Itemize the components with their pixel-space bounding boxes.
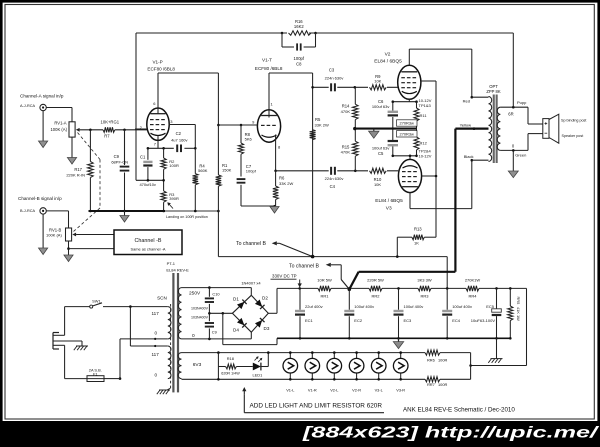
svg-text:C1: C1 — [140, 155, 146, 160]
svg-text:EL84 / 6BQ5: EL84 / 6BQ5 — [375, 198, 403, 204]
svg-text:22uf 400v: 22uf 400v — [305, 304, 323, 309]
svg-text:103N400V: 103N400V — [191, 307, 209, 311]
svg-text:224n 630v: 224n 630v — [325, 76, 344, 81]
svg-text:100uf 63v: 100uf 63v — [372, 146, 390, 151]
svg-text:4u7 160v: 4u7 160v — [171, 137, 187, 142]
svg-text:33K 2W: 33K 2W — [315, 122, 329, 127]
svg-text:1N4007 x4: 1N4007 x4 — [241, 280, 261, 285]
svg-text:C5: C5 — [378, 151, 384, 156]
svg-text:5K6: 5K6 — [245, 137, 253, 142]
svg-text:330V DC TP: 330V DC TP — [272, 274, 297, 279]
svg-text:D1: D1 — [233, 297, 239, 302]
svg-text:F1: F1 — [93, 371, 98, 376]
svg-text:100R: 100R — [438, 358, 447, 363]
svg-text:V3: V3 — [386, 205, 392, 211]
svg-text:V1-L: V1-L — [286, 387, 295, 392]
svg-text:RR5: RR5 — [516, 297, 521, 305]
svg-text:R12: R12 — [420, 141, 428, 146]
svg-text:R7: R7 — [104, 133, 110, 138]
svg-text:390R: 390R — [169, 196, 179, 201]
svg-text:R6: R6 — [279, 176, 285, 181]
svg-text:100K (A): 100K (A) — [50, 127, 67, 132]
svg-text:0: 0 — [192, 333, 195, 339]
svg-text:R17: R17 — [74, 167, 82, 172]
svg-text:A-J-RCA: A-J-RCA — [20, 104, 35, 108]
svg-text:100uf 400v: 100uf 400v — [452, 304, 472, 309]
svg-text:100pf: 100pf — [246, 168, 257, 173]
svg-text:V2: V2 — [385, 52, 391, 58]
svg-text:EC3: EC3 — [404, 318, 413, 323]
svg-text:R15: R15 — [342, 144, 350, 149]
svg-text:470uf10v: 470uf10v — [139, 182, 155, 187]
svg-text:EL84 / 6BQ5: EL84 / 6BQ5 — [374, 58, 402, 64]
svg-text:Red: Red — [463, 98, 470, 103]
svg-text:Channel-A signal in/p: Channel-A signal in/p — [20, 94, 64, 99]
svg-text:150K: 150K — [222, 168, 232, 173]
svg-text:10K: 10K — [374, 79, 381, 84]
svg-text:6R: 6R — [508, 111, 513, 116]
svg-text:103N400V: 103N400V — [191, 315, 209, 319]
svg-text:100uf 400v: 100uf 400v — [404, 304, 424, 309]
svg-text:V2-R: V2-R — [352, 387, 361, 392]
svg-text:D3: D3 — [264, 326, 270, 331]
svg-text:Black: Black — [464, 154, 474, 159]
svg-text:C8: C8 — [296, 61, 302, 66]
svg-text:Speaker post: Speaker post — [562, 134, 584, 138]
svg-text:EC5: EC5 — [486, 304, 495, 309]
svg-text:Green: Green — [515, 152, 526, 157]
svg-text:SCN: SCN — [157, 296, 167, 301]
svg-text:Channel -B: Channel -B — [135, 238, 162, 244]
svg-text:EC4: EC4 — [452, 318, 461, 323]
svg-text:100R: 100R — [169, 163, 179, 168]
svg-text:1K: 1K — [414, 240, 419, 245]
svg-text:270K1W: 270K1W — [465, 277, 481, 282]
svg-text:D2: D2 — [262, 295, 268, 300]
svg-text:10-12V: 10-12V — [419, 153, 432, 158]
svg-text:RV1-A: RV1-A — [54, 120, 66, 125]
svg-text:C10: C10 — [212, 292, 220, 297]
svg-text:Same as channel -A: Same as channel -A — [130, 246, 165, 251]
svg-text:250V: 250V — [189, 290, 201, 296]
svg-text:RR2: RR2 — [371, 293, 380, 298]
svg-text:560K: 560K — [198, 168, 208, 173]
svg-text:To channel B: To channel B — [289, 264, 320, 270]
svg-text:RR4: RR4 — [468, 293, 477, 298]
svg-text:V3-R: V3-R — [396, 387, 405, 392]
svg-text:0: 0 — [154, 372, 157, 377]
svg-text:RR3: RR3 — [420, 293, 429, 298]
svg-text:Yellow: Yellow — [460, 123, 472, 128]
svg-text:100R: 100R — [438, 382, 447, 387]
svg-text:ZPP 8K: ZPP 8K — [486, 89, 501, 94]
svg-text:470K: 470K — [341, 150, 351, 155]
svg-text:470K: 470K — [341, 109, 351, 114]
svg-text:Landing on 100R position: Landing on 100R position — [166, 215, 208, 219]
svg-text:117: 117 — [151, 311, 159, 316]
svg-text:100uf 400v: 100uf 400v — [354, 304, 374, 309]
svg-text:117: 117 — [151, 352, 159, 357]
svg-text:ANK EL84 REV-E Schematic / Dec: ANK EL84 REV-E Schematic / Dec-2010 — [403, 406, 515, 413]
svg-text:EC1: EC1 — [305, 318, 314, 323]
svg-text:33K 2W: 33K 2W — [279, 181, 293, 186]
svg-text:41K 1W: 41K 1W — [516, 307, 521, 321]
svg-text:620R 1/4W: 620R 1/4W — [221, 371, 240, 375]
svg-text:LED1: LED1 — [253, 372, 263, 377]
svg-text:0: 0 — [154, 331, 157, 336]
svg-text:3K3 3W: 3K3 3W — [417, 277, 431, 282]
svg-text:C2: C2 — [176, 131, 182, 136]
svg-text:Pupp: Pupp — [517, 100, 527, 105]
svg-text:V3-L: V3-L — [375, 387, 384, 392]
svg-text:RR7: RR7 — [427, 382, 435, 387]
svg-text:100pf: 100pf — [294, 56, 305, 61]
svg-text:V1-P: V1-P — [152, 59, 162, 64]
svg-text:D4: D4 — [233, 328, 239, 333]
svg-text:R11: R11 — [420, 113, 428, 118]
svg-text:R18: R18 — [227, 356, 234, 361]
svg-text:10K+RG1: 10K+RG1 — [101, 120, 120, 125]
svg-text:16K2: 16K2 — [294, 24, 304, 29]
svg-text:EL84 REV-E: EL84 REV-E — [166, 268, 189, 273]
svg-text:RR6: RR6 — [427, 358, 435, 363]
svg-text:10R 5W: 10R 5W — [317, 277, 332, 282]
svg-text:224n 630v: 224n 630v — [325, 176, 344, 181]
svg-text:C9: C9 — [212, 330, 217, 335]
svg-text:Sp binding post: Sp binding post — [561, 118, 586, 122]
svg-text:ADD LED LIGHT AND LIMIT RESIST: ADD LED LIGHT AND LIMIT RESISTOR 620R — [250, 402, 383, 409]
svg-text:SW1: SW1 — [92, 299, 100, 304]
svg-text:100uf 63v: 100uf 63v — [372, 104, 390, 109]
svg-text:V1-R: V1-R — [308, 387, 317, 392]
svg-text:270R3w: 270R3w — [400, 121, 414, 126]
svg-text:V1-T: V1-T — [262, 58, 272, 63]
svg-text:ECF80 /6BL8: ECF80 /6BL8 — [255, 66, 283, 71]
svg-text:C4: C4 — [330, 184, 336, 189]
svg-text:Channel-B signal in/p: Channel-B signal in/p — [18, 196, 62, 201]
svg-text:6V3: 6V3 — [193, 362, 202, 368]
svg-text:V2-L: V2-L — [330, 387, 339, 392]
svg-text:220K R-IN: 220K R-IN — [66, 172, 85, 177]
svg-text:R14: R14 — [342, 103, 350, 108]
svg-text:C9: C9 — [114, 154, 120, 159]
svg-text:RR1: RR1 — [320, 293, 329, 298]
svg-text:R13: R13 — [414, 227, 422, 232]
svg-text:PT-1: PT-1 — [167, 261, 176, 266]
svg-text:TP1&3: TP1&3 — [419, 103, 432, 108]
svg-text:[884x623] http://upic.me/: [884x623] http://upic.me/ — [301, 425, 599, 442]
svg-text:To channel B: To channel B — [236, 241, 267, 247]
svg-text:270R3w: 270R3w — [400, 132, 414, 137]
svg-text:C3: C3 — [329, 67, 335, 72]
svg-text:EC2: EC2 — [354, 318, 363, 323]
svg-text:10K: 10K — [374, 182, 381, 187]
svg-text:220R 5W: 220R 5W — [367, 277, 384, 282]
svg-text:100K (A): 100K (A) — [46, 232, 62, 237]
svg-text:ECF80 /6BL8: ECF80 /6BL8 — [147, 67, 175, 72]
svg-text:68PF-CN: 68PF-CN — [111, 159, 128, 164]
svg-text:B-J-RCA: B-J-RCA — [20, 209, 35, 213]
svg-text:10uF63-100V: 10uF63-100V — [471, 318, 496, 323]
